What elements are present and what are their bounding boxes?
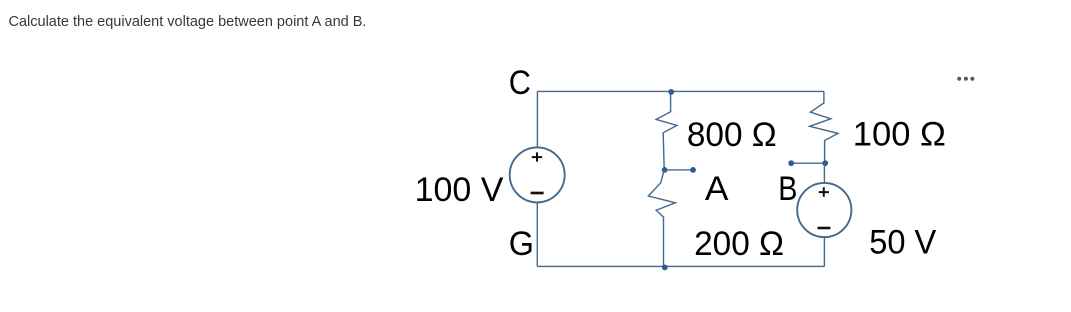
svg-text:100 V: 100 V (415, 171, 504, 209)
wire: stub to terminal B (791, 162, 824, 164)
svg-text:50 V: 50 V (869, 224, 936, 262)
node: junction at top of middle branch (668, 89, 674, 95)
wire: bottom rail G (537, 265, 824, 267)
svg-text:B: B (778, 170, 797, 208)
minus sign of V1 (531, 192, 544, 195)
wire: top rail C to right branch (537, 90, 824, 92)
minus sign of V2 (818, 227, 831, 230)
svg-text:800 Ω: 800 Ω (687, 116, 777, 154)
svg-text:200 Ω: 200 Ω (694, 225, 784, 263)
svg-text:A: A (705, 170, 729, 208)
wire: source V2 down to bottom rail (823, 237, 825, 267)
svg-text:C: C (509, 64, 531, 102)
voltage source V2 50 V (797, 183, 851, 237)
node: junction at bottom of middle branch (662, 265, 668, 271)
icon: ellipsis menu dots (957, 77, 961, 81)
wire: stub to terminal A (664, 169, 693, 171)
svg-text:G: G (509, 225, 534, 263)
resistor R2 200 ohm (middle branch lower) (648, 170, 675, 267)
node: junction A on middle branch (662, 167, 668, 173)
resistor R1 800 ohm (middle branch upper) (656, 92, 677, 170)
resistor R3 100 ohm (right branch upper) (810, 91, 838, 163)
svg-text:Calculate the equivalent volta: Calculate the equivalent voltage between… (9, 14, 367, 30)
node B: open terminal dot (788, 160, 794, 166)
plus sign of V2 (819, 187, 829, 197)
wire: left branch lower segment (536, 202, 538, 266)
node: junction B on right branch (822, 160, 828, 166)
svg-text:100 Ω: 100 Ω (853, 116, 946, 154)
wire: junction B down to source V2 (823, 163, 825, 183)
voltage source V1 100 V (510, 147, 565, 202)
plus sign of V1 (532, 152, 542, 161)
wire: left branch upper segment (536, 91, 538, 147)
node A: open terminal dot (690, 167, 696, 173)
